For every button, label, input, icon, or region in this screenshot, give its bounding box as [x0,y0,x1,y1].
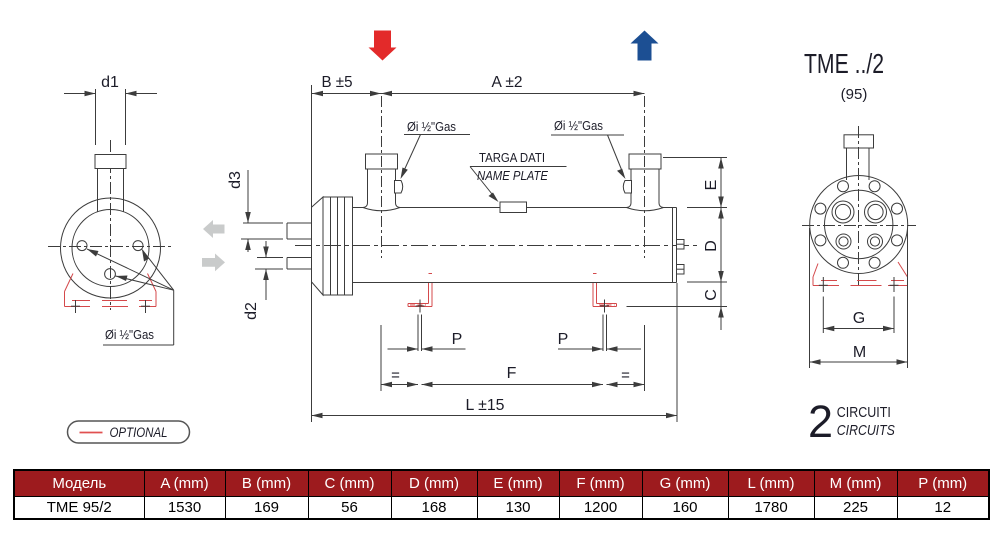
red inlet block arrow [369,31,397,61]
svg-text:L ±15: L ±15 [466,397,505,414]
bolt hole bottom-right [869,257,880,268]
svg-text:Øi ½"Gas: Øi ½"Gas [407,120,456,134]
left tube stub upper [287,223,312,239]
right view vertical centerline [858,126,860,288]
right view outer flange circle [810,176,908,274]
right view neck body [847,148,870,180]
svg-text:P: P [558,331,569,348]
extension line below right nozzle [644,325,646,391]
svg-text:(95): (95) [841,86,868,103]
neck cap (threaded connection) [95,155,126,169]
bracket foot level line right [627,306,728,308]
extension line below left nozzle [380,325,382,391]
right nozzle [627,169,664,211]
NAME PLATE label [477,168,548,183]
dimension P lines right [558,346,641,352]
svg-text:2: 2 [808,396,833,447]
svg-text:F: F [507,365,517,382]
gas label right nozzle [554,119,603,133]
tube port lower-left [836,234,851,249]
right end tab lower [677,265,685,275]
dimension G label [853,310,865,327]
dimension d2 ticks and arrows [255,241,283,300]
svg-text:M: M [853,344,866,361]
svg-text:d1: d1 [101,74,119,91]
tube port lower-right [868,234,883,249]
svg-text:TARGA DATI: TARGA DATI [479,150,545,165]
svg-text:B ±5: B ±5 [322,74,353,91]
right nozzle cap [629,154,661,169]
svg-text:E: E [703,180,720,191]
svg-text:Øi ½"Gas: Øi ½"Gas [105,328,154,342]
legend OPTIONAL text [110,424,168,440]
subtitle (95) [841,86,868,103]
name plate rectangle [500,202,527,213]
dimension P lines left [388,346,466,352]
bolt hole right-lower [892,235,903,246]
TARGA DATI label [479,150,545,165]
svg-text:P: P [452,331,463,348]
dimension d2 label (rotated) [243,302,260,320]
bracket slot lines right [603,315,607,352]
inner circle [72,210,149,287]
dimension A label [492,74,523,91]
shell bottom line [353,282,677,284]
bolt hole top-left [838,181,849,192]
tube port upper-right [865,201,887,223]
blue outlet block arrow [631,31,659,61]
dimension L label [466,397,505,414]
dimension M line [810,359,908,365]
bracket slot mark right [141,300,150,313]
svg-text:D: D [703,240,720,252]
left flange stack [323,197,353,295]
svg-text:C: C [703,289,720,301]
svg-text:NAME PLATE: NAME PLATE [477,168,548,183]
grey arrow left (flow out) [203,220,225,238]
end cap (left head) [312,197,324,295]
circuits count 2 [808,396,833,447]
shell top line [353,207,677,209]
dimension P label right [558,331,569,348]
left tube stub lower [287,258,312,270]
svg-text:CIRCUITI: CIRCUITI [837,405,891,421]
dimension F label [507,365,517,382]
tube port upper-left [832,201,854,223]
dimension L line [312,413,678,419]
left nozzle centerline [381,96,383,258]
dimension G line [823,326,894,332]
equals dimension right [607,367,645,387]
right end tab upper [677,240,685,250]
svg-text:=: = [621,367,630,384]
dimension d1 label [101,74,119,91]
right nozzle centerline [644,96,646,258]
right view neck cap [844,135,874,148]
bolt hole left-upper [815,203,826,214]
bracket slot cross right (right view) [890,277,899,292]
bracket slot lines left [418,315,422,352]
left nozzle drain plug [395,181,403,194]
dimension d3 ticks and arrows [241,170,283,252]
vertical centerline of left view [110,140,112,310]
bolt hole right-upper [892,203,903,214]
outer flange circle [61,198,161,298]
dimension E-D-C vertical line and arrows [718,158,724,331]
dimension A line [381,91,645,97]
bracket slot cross left (right view) [819,277,828,292]
bolt hole top-right [869,181,880,192]
shell horizontal centerline [295,245,700,247]
svg-text:G: G [853,310,865,327]
name plate leader [470,167,567,203]
bolt hole bottom-left [838,257,849,268]
hole bottom [105,269,116,280]
gas label left leader [401,135,471,180]
dimension D label (rotated) [703,240,720,252]
horizontal centerline of left view [48,246,173,248]
left nozzle [363,169,400,211]
red optional bracket (right view) [813,262,908,286]
right view inner circle [825,190,893,258]
svg-text:d2: d2 [243,302,260,320]
dimension table [13,469,990,520]
svg-text:OPTIONAL: OPTIONAL [110,424,168,440]
equals dimension left [381,367,418,387]
svg-text:CIRCUITS: CIRCUITS [837,423,895,439]
extension line E top [663,157,727,159]
dimension M label [853,344,866,361]
svg-text:A ±2: A ±2 [492,74,523,91]
bracket slot cross left [416,300,425,313]
gas label left nozzle [407,120,456,134]
legend pill [68,421,190,443]
dimension P label left [452,331,463,348]
CIRCUITS label [837,423,895,439]
extension line shell top right [687,207,727,209]
red optional bracket (left view) [65,274,157,307]
dimension G extension lines [823,297,894,334]
dimension B line [312,91,381,97]
right extension line for L [676,283,678,422]
CIRCUITI label [837,405,891,421]
svg-text:TME ../2: TME ../2 [804,48,884,79]
dimension E label (rotated) [703,180,720,191]
title TME ../2 [804,48,884,79]
gas label left view [105,328,154,342]
dimension d3 label (rotated) [227,171,244,189]
leader lines to gas holes [87,249,174,345]
hole left [77,241,87,251]
dimension d1 lines and arrows [64,89,157,145]
dimension C label (rotated) [703,289,720,301]
dimension F line [422,382,604,388]
red mounting bracket left (middle view) [408,274,432,307]
bracket slot mark left [71,300,80,313]
legend red dash [80,432,103,434]
svg-text:Øi ½"Gas: Øi ½"Gas [554,119,603,133]
grey arrow right (flow in) [202,254,225,272]
right end plate [673,208,677,283]
dimension M extension lines [810,228,908,368]
svg-text:d3: d3 [227,171,244,189]
gas label right leader [551,135,626,179]
left body extension line [311,85,313,422]
extension line shell bottom right [687,281,727,283]
bracket slot cross right [600,300,609,313]
right nozzle drain plug [623,181,631,194]
dimension B label [322,74,353,91]
hole right [133,241,143,251]
left nozzle cap [366,154,398,169]
right view horizontal centerline [802,225,916,227]
bolt hole left-lower [815,235,826,246]
svg-text:=: = [391,367,400,384]
red mounting bracket right (middle view) [593,274,617,307]
neck body [98,169,124,213]
